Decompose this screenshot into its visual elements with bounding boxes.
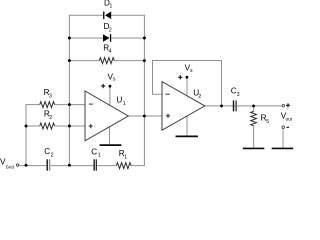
ground U1 [100,144,122,146]
svg-text:C: C [91,147,97,156]
junction left rail bottom [68,164,71,167]
op-amp U1 [85,91,128,141]
capacitor C3 [234,100,237,111]
terminal Vout plus [282,104,285,107]
plus sign Vs U2 [178,75,182,79]
svg-text:out: out [286,116,293,122]
wire D2 branch left [69,37,103,39]
wire R3 row right [55,104,85,106]
resistor R4 [99,58,114,64]
wire right rail [143,15,145,166]
plus sign Vs U1 [101,84,105,88]
wire bottom row seg3 [97,165,116,167]
junction U1 output rail [143,115,146,118]
svg-text:2: 2 [109,27,112,33]
wire left rail [68,15,70,166]
junction left rail D2 [68,37,71,40]
terminal VGnd [16,164,18,166]
svg-text:3: 3 [49,93,52,99]
diode D1 [103,12,111,20]
junction mini rail R2 [25,125,28,128]
wire R2 row left [26,125,40,127]
wire U2 feedback loop [153,61,222,106]
wire R3 row left [26,104,40,106]
resistor R5 [251,111,257,125]
wire Vout minus down [282,129,284,148]
ground U2 [176,135,198,137]
op-amp U2 [162,82,205,131]
junction right rail R4 [143,59,146,62]
svg-text:5: 5 [266,119,269,125]
wire D2 branch right [111,37,145,39]
resistor R1 [116,163,131,169]
wire U2 gnd pin [186,116,188,136]
junction left rail R4 [68,59,71,62]
svg-text:Gnd: Gnd [6,165,15,170]
svg-text:3: 3 [237,92,240,98]
wire left mini rail [25,104,27,166]
svg-text:4: 4 [109,49,112,55]
resistor R3 [40,102,55,108]
wire bottom row seg4 [131,165,145,167]
wire R4 branch right [114,60,145,62]
svg-text:2: 2 [198,94,201,100]
terminal Vout minus [282,126,285,129]
ground R5 [243,147,264,149]
wire U2 output [205,105,282,107]
wire U1 output to U2 [128,115,162,117]
svg-text:1: 1 [124,154,127,160]
svg-text:1: 1 [110,4,113,10]
svg-text:2: 2 [49,115,52,121]
svg-text:C: C [44,147,50,156]
op-amp U1 plus sign [89,124,93,128]
junction left rail R3 [68,103,71,106]
wire U2 Vs pin [186,78,188,95]
wire U1 gnd pin [109,127,111,145]
op-amp U2 minus sign [165,93,170,95]
junction R5 top [252,104,255,107]
junction U2 feedback [220,104,223,107]
wire bottom row seg1 [19,165,47,167]
resistor R2 [40,123,55,129]
wire R5 bottom stub [253,126,255,148]
op-amp U1 minus sign [89,103,93,105]
ground Vout [272,147,294,149]
op-amp U2 plus sign [166,114,170,118]
capacitor C1 [94,159,96,170]
node Vs U1 [109,85,112,88]
capacitor C2 [47,159,49,170]
svg-text:1: 1 [98,153,101,159]
svg-text:s: s [113,77,116,83]
minus sign Vout [287,126,290,128]
plus sign Vout [286,103,290,107]
junction left rail R2 [68,125,71,128]
wire R2 row right [55,125,85,127]
svg-text:1: 1 [123,101,126,107]
wire U1 Vs pin [109,88,111,106]
junction right rail D2 [143,37,146,40]
svg-text:U: U [116,96,122,105]
wire D1 branch left [69,14,103,16]
junction mini rail bottom [25,164,28,167]
wire D1 branch right [111,14,145,16]
diode D2 [103,34,111,42]
wire bottom row seg2 [50,165,93,167]
wire R5 top stub [253,106,255,112]
wire R4 branch left [69,60,99,62]
svg-text:2: 2 [51,153,54,159]
node Vs U2 [186,76,189,79]
